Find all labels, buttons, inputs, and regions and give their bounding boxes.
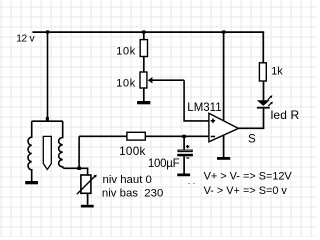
svg-text:100k: 100k [119, 145, 146, 158]
trimmer R2 wiper arrow [148, 77, 184, 83]
wire transformer top bar [32, 120, 63, 122]
label 100k [119, 145, 146, 158]
junction rail-R1 [142, 30, 145, 33]
label niv bas 230 [102, 188, 163, 200]
svg-text:S: S [248, 134, 256, 146]
potentiometer P1 body [81, 175, 91, 193]
label 10k R1 [116, 46, 136, 58]
wire rail to R1 [143, 32, 145, 40]
wire U1 output [238, 127, 263, 129]
wire LED to output node [263, 109, 265, 130]
LED D1 emission arrows [268, 95, 273, 106]
capacitor C1 negative plate [177, 154, 193, 157]
dots artifacts [188, 183, 194, 184]
resistor R1 10k [140, 40, 147, 57]
svg-text:100µF: 100µF [148, 158, 180, 170]
label comparator rule 2 [204, 185, 288, 197]
label 12v supply [16, 34, 35, 45]
resistor R4 1k [259, 63, 266, 81]
wire junction up to 100k line [78, 136, 80, 168]
wire R2 to ground [143, 88, 145, 101]
label 100uF [148, 158, 180, 170]
inductor L2 secondary coil [59, 121, 79, 168]
ground under U1 [217, 157, 230, 160]
ground under R2 [137, 101, 150, 104]
ground under L1 [25, 181, 38, 184]
resistor R3 100k [127, 132, 145, 140]
svg-text:niv bas 230: niv bas 230 [102, 188, 163, 200]
wire rail to U1 V+ pin [223, 32, 225, 121]
ground under P1 [81, 205, 94, 208]
trimmer R2 10k body [140, 72, 147, 88]
junction rail-U1 V+ [222, 30, 225, 33]
U1 minus input mark [211, 136, 215, 138]
label led R [271, 108, 300, 122]
svg-text:niv haut 0: niv haut 0 [103, 174, 152, 186]
LED D1 triangle [257, 100, 270, 106]
capacitor C1 positive plate [178, 150, 192, 152]
svg-text:1k: 1k [271, 66, 283, 78]
svg-text:V+ > V- => S=12V: V+ > V- => S=12V [204, 170, 293, 182]
junction transformer top [46, 117, 49, 120]
wire wiper to U1 non-inverting input [184, 80, 209, 121]
capacitor C1 plus mark [186, 145, 189, 148]
wire to R3 left [79, 135, 127, 137]
capacitor C1 minus mark [186, 157, 189, 158]
junction rail-transformer [46, 30, 49, 33]
wire rail to R4 [262, 32, 264, 63]
potentiometer P1 arrow [77, 175, 97, 195]
label 10k R2 [116, 78, 136, 90]
wire P1 to ground [87, 193, 89, 204]
svg-text:V- > V+ => S=0 v: V- > V+ => S=0 v [204, 185, 288, 197]
svg-text:led R: led R [271, 108, 300, 122]
svg-text:LM311: LM311 [187, 102, 221, 114]
op-amp U1 LM311 [209, 113, 239, 142]
wire 12V rail [32, 31, 264, 33]
inductor L1 primary coil [28, 121, 32, 181]
U1 plus input mark [211, 119, 215, 123]
svg-text:10k: 10k [116, 46, 136, 58]
junction C1 node [182, 135, 185, 138]
wire R1 to R2 [143, 57, 145, 73]
wire rail to transformer top [47, 32, 49, 121]
junction L2-P1-R3 node [77, 167, 81, 171]
label comparator rule 1 [204, 170, 293, 182]
wire C1 bottom lead [183, 156, 185, 173]
ground under C1 [177, 174, 190, 177]
transformer core [43, 136, 51, 169]
wire U1 ground pin [223, 135, 225, 157]
wire R3 to U1 inverting input [145, 135, 209, 137]
svg-text:12 v: 12 v [16, 34, 35, 45]
label LM311 [187, 102, 221, 114]
label niv haut 0 [103, 174, 152, 186]
wire C1 top lead [183, 136, 185, 149]
label 1k [271, 66, 283, 78]
LED D1 cathode bar [257, 107, 270, 109]
label node S [248, 134, 256, 146]
svg-text:10k: 10k [116, 78, 136, 90]
wire R4 to LED [263, 81, 265, 100]
wire junction to potentiometer P1 [79, 168, 88, 175]
